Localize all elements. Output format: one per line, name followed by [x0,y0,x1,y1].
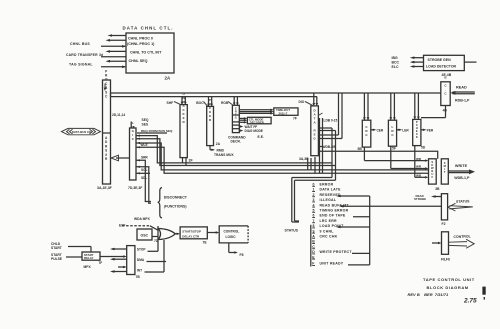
svg-text:CHNL PROC 0: CHNL PROC 0 [128,37,153,41]
svg-text:OSC: OSC [141,234,149,238]
svg-text:SOL: SOL [141,168,148,172]
svg-text:DIAG MODE: DIAG MODE [245,129,263,133]
svg-text:DECR.: DECR. [231,139,241,143]
svg-text:CONTROL: CONTROL [453,234,471,239]
svg-text:ROB: ROB [221,101,229,105]
svg-text:MPX: MPX [84,265,92,269]
svg-text:REV B BER 7/31/71: REV B BER 7/31/71 [408,292,449,297]
svg-text:7E: 7E [203,241,208,245]
svg-text:STROBE: STROBE [414,197,426,201]
svg-text:WDB-MP: WDB-MP [323,145,337,149]
svg-text:BLOCK DIAGRAM: BLOCK DIAGRAM [427,285,469,290]
svg-text:WDB-1,P: WDB-1,P [454,176,470,180]
svg-text:DMA: DMA [137,258,145,262]
svg-text:WLE: WLE [141,143,148,147]
svg-text:DATA CHNL CTL.: DATA CHNL CTL. [123,26,174,31]
svg-text:4E,4B: 4E,4B [442,73,452,77]
svg-text:WDA MPX: WDA MPX [134,217,151,221]
svg-text:ERROR: ERROR [320,183,334,187]
svg-text:STROBE GEN: STROBE GEN [428,58,452,62]
svg-text:2A: 2A [165,76,171,81]
svg-text:WR: WR [416,164,422,168]
svg-text:STATUS: STATUS [456,199,470,203]
svg-text:BOC: BOC [196,101,204,105]
svg-text:CRC: CRC [365,125,369,137]
svg-text:5F: 5F [392,147,396,151]
svg-text:CHNL BUS: CHNL BUS [70,42,90,46]
svg-text:SRR: SRR [141,156,148,160]
svg-text:TIMING ERROR: TIMING ERROR [320,209,349,213]
svg-text:7D,3E,3F: 7D,3E,3F [128,186,142,190]
svg-text:LRC ERR: LRC ERR [320,219,338,223]
svg-text:SES: SES [142,122,149,126]
svg-text:CHNL SEQ: CHNL SEQ [129,59,148,63]
svg-text:3B: 3B [435,187,440,191]
svg-text:CHNL TO CTL INT: CHNL TO CTL INT [130,50,162,54]
svg-text:3A,1E,3F: 3A,1E,3F [97,186,113,190]
svg-text:CARD TRANSFER 3d: CARD TRANSFER 3d [66,53,103,57]
svg-text:TAG SIGNAL: TAG SIGNAL [69,63,93,67]
svg-text:PCHECK: PCHECK [415,120,418,139]
svg-text:LOGIC: LOGIC [226,235,237,239]
svg-text:TAPE CONTROL UNIT: TAPE CONTROL UNIT [423,277,475,282]
svg-text:INT: INT [137,268,142,272]
svg-text:F8,F6: F8,F6 [441,258,450,262]
svg-text:SKWBUF: SKWBUF [430,160,434,179]
svg-text:LRC: LRC [391,125,395,137]
svg-text:9 CHNL: 9 CHNL [320,229,335,233]
svg-text:F2: F2 [442,222,446,226]
svg-text:DISCONNECT: DISCONNECT [164,196,188,200]
svg-text:DELAY: DELAY [84,256,94,260]
svg-text:READ: READ [456,86,467,90]
svg-text:UNIT READY: UNIT READY [320,262,344,266]
svg-text:START/STOP: START/STOP [182,229,201,233]
svg-text:DELAY CTR: DELAY CTR [182,234,200,238]
svg-text:BCC: BCC [392,61,400,65]
svg-text:STATUS: STATUS [285,229,299,233]
svg-text:STOP: STOP [137,248,146,252]
svg-text:WRITE PROTECT: WRITE PROTECT [320,250,353,254]
svg-text:2D,11,14: 2D,11,14 [112,113,125,117]
svg-text:DATA REG: DATA REG [313,109,317,141]
svg-text:ILLEGAL: ILLEGAL [320,198,337,202]
svg-text:E.E.: E.E. [258,135,264,139]
svg-text:2A: 2A [216,142,221,146]
svg-text:LDB 0-15: LDB 0-15 [324,119,338,123]
svg-text:LOAD DETECTOR: LOAD DETECTOR [426,64,457,68]
svg-text:DATA BUS CK: DATA BUS CK [72,130,92,134]
svg-text:SEQ: SEQ [142,118,149,122]
svg-text:DIO: DIO [299,100,305,104]
svg-text:B.C.C: B.C.C [444,76,448,96]
svg-text:CER: CER [377,128,384,132]
svg-text:EXP: EXP [119,223,126,227]
svg-text:LER: LER [402,128,409,132]
svg-text:WRITE: WRITE [455,164,468,168]
svg-text:CRC CHK: CRC CHK [320,235,338,239]
svg-text:ADRSXR: ADRSXR [104,136,108,161]
svg-text:START: START [51,246,62,250]
svg-text:CREG: CREG [234,107,237,120]
svg-text:XMIT: XMIT [442,161,446,174]
svg-text:RMD: RMD [217,148,225,152]
svg-text:PER: PER [427,128,434,132]
svg-text:5D: 5D [421,146,426,150]
svg-text:ELC: ELC [392,65,399,69]
svg-text:7F: 7F [99,261,103,265]
svg-text:SHF: SHF [167,101,174,105]
svg-text:5B: 5B [358,147,363,151]
svg-text:F8: F8 [240,253,244,257]
svg-text:7B: 7B [136,275,141,279]
svg-text:RDB-1,P: RDB-1,P [455,99,470,103]
svg-text:DECODER: DECODER [250,120,264,124]
svg-text:(FUNCTIONS): (FUNCTIONS) [164,205,187,209]
svg-text:END OF TAPE: END OF TAPE [320,214,346,218]
svg-text:2011-7: 2011-7 [279,112,288,116]
svg-text:IBG: IBG [392,56,399,60]
svg-text:CONTROL: CONTROL [224,230,240,234]
svg-text:TRANS MUX: TRANS MUX [214,153,234,157]
svg-text:PULSE: PULSE [51,257,63,261]
svg-text:SDL: SDL [141,176,147,180]
svg-text:(CHNL PROC 1): (CHNL PROC 1) [127,42,155,46]
svg-text:DATA LATE: DATA LATE [320,188,342,192]
svg-text:2.75: 2.75 [463,298,477,305]
svg-text:7F: 7F [293,117,297,121]
